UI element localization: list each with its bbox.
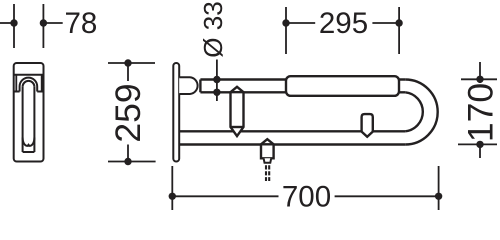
dimension 295 extension line left <box>285 7 287 54</box>
dimension 295 dot right <box>395 19 402 26</box>
svg-text:170: 170 <box>460 83 500 142</box>
dimension 259 dot bottom <box>124 158 131 165</box>
main view: wall plate <box>173 63 179 162</box>
main view: lower tube bottom edge <box>179 143 405 145</box>
dimension 78 line left <box>0 22 14 24</box>
dimension 259 line upper segment <box>127 63 129 81</box>
main view: latch top chord <box>231 91 244 93</box>
dimension 259 top tick <box>108 62 155 64</box>
svg-text:700: 700 <box>282 181 331 214</box>
main view: release tab <box>362 114 373 137</box>
front view: folded tube left side <box>22 87 24 152</box>
dimension 170 line lower segment <box>479 143 481 158</box>
main view: hinge housing <box>179 77 197 94</box>
main view: latch body <box>231 87 244 136</box>
dimension diameter 33 dot top <box>213 76 220 83</box>
front view: tube end cap <box>23 138 35 146</box>
main view: trigger chain right dashes <box>268 165 270 181</box>
dimension 295 extension line right <box>398 7 400 54</box>
dimension 78 line right <box>43 22 62 24</box>
dimension 700 line left <box>172 195 278 197</box>
front view: folded tube right side <box>33 87 35 152</box>
svg-text:295: 295 <box>319 7 368 40</box>
dimension 170 top tick <box>461 78 497 80</box>
dimension 700 dot right <box>435 193 442 200</box>
front view: right screw stub <box>41 75 43 92</box>
dimension 170 bottom tick <box>458 143 497 145</box>
dimension 259 line lower segment <box>127 145 129 162</box>
dimension 170 line upper segment <box>479 62 481 83</box>
main view: U-bend outer arc <box>405 80 437 145</box>
dimension diameter 33 dot bottom <box>213 89 220 96</box>
front view: hinge dome outer arc <box>20 78 38 92</box>
front view: left screw stub <box>15 75 17 92</box>
main view: upper tube top edge <box>200 78 405 80</box>
front view: shoulder line right <box>37 91 43 93</box>
dimension 78 dot 1 <box>10 19 17 26</box>
front view: hinge dome inner arc <box>23 81 35 87</box>
svg-text:Ø 33: Ø 33 <box>198 1 228 57</box>
main view: tube end joint line <box>199 80 201 93</box>
main view: trigger collar <box>264 158 272 162</box>
front view: plate top band line <box>14 74 44 76</box>
dimension 259 dot top <box>124 59 131 66</box>
svg-text:259: 259 <box>108 83 148 142</box>
dimension 78 dot 2 <box>40 19 47 26</box>
dimension 295 dot left <box>282 19 289 26</box>
front view: shoulder line left <box>14 91 20 93</box>
dimension 78 extension line 1 <box>13 4 15 48</box>
dimension 295 line left <box>286 22 315 24</box>
dimension 700 line right <box>335 195 439 197</box>
main view: grip pad <box>286 76 399 96</box>
front view: outer cover plate outline <box>14 63 44 162</box>
main view: upper tube bottom edge <box>200 91 405 93</box>
dimension 295 line right <box>372 22 399 24</box>
main view: latch bottom chord <box>231 126 244 128</box>
dimension 78 extension line 2 <box>42 4 44 48</box>
dimension 170 dot top <box>476 76 483 83</box>
main view: lower tube top edge <box>179 130 405 132</box>
dimension 700 dot left <box>169 193 176 200</box>
front view: inner bottom line <box>23 151 35 153</box>
svg-text:78: 78 <box>65 7 98 40</box>
main view: U-bend inner arc <box>405 92 423 131</box>
main view: trigger chord <box>261 143 274 145</box>
main view: trigger body <box>261 139 274 158</box>
dimension 259 bottom tick <box>108 161 156 163</box>
main view: trigger chain left dashes <box>265 165 267 181</box>
dimension 700 extension line left <box>171 166 173 210</box>
dimension 700 extension line right <box>438 166 440 210</box>
dimension diameter 33 line <box>216 60 218 102</box>
dimension 170 dot bottom <box>476 141 483 148</box>
